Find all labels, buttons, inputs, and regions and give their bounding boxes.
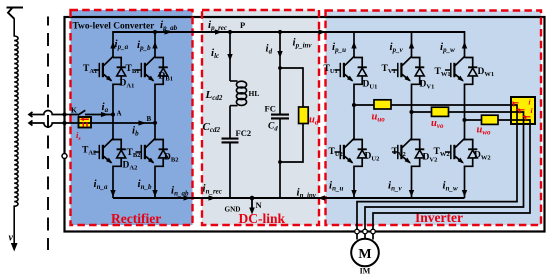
Inverter dashed border	[326, 11, 542, 226]
junction dot wire a on box edge	[62, 112, 66, 116]
voltage sensor u_d box	[299, 107, 309, 124]
IGBT module T_U2 with diode D_U2	[344, 139, 354, 148]
IGBT module T_W2 with diode D_W2	[455, 139, 465, 148]
wire phase U to motor	[354, 105, 517, 240]
arrow i_lc	[227, 54, 232, 61]
svg-text:B: B	[147, 115, 152, 123]
voltage sensor u_uo box	[374, 100, 391, 109]
junction dot u_d tap upper	[278, 66, 282, 70]
IGBT module T_U1 with diode D_U1	[344, 57, 354, 66]
IGBT module T_B2 with diode D_B2	[145, 139, 155, 148]
wire Cd branch lower	[279, 118, 281, 198]
junction dot P rail Cd branch	[278, 30, 282, 34]
svg-text:N: N	[256, 200, 263, 210]
arrow i_n_v	[409, 190, 414, 197]
arrow i_n_rec	[209, 195, 217, 200]
wire leg mid section T_A1 with diode D_A1	[112, 84, 114, 141]
outer system boundary box	[65, 17, 545, 232]
terminal circle on box edge	[62, 154, 67, 159]
arrow i_n_w	[462, 190, 467, 197]
arrow i_p_a	[110, 42, 115, 49]
arrow i_p_ab	[165, 29, 173, 34]
node B dot	[153, 121, 157, 125]
svg-text:FC2: FC2	[236, 128, 252, 138]
motor M circle	[351, 239, 379, 267]
node A dot	[111, 112, 115, 116]
DC-link dashed border	[202, 10, 319, 225]
capacitor Cd plates	[271, 114, 289, 116]
wire leg T_V2 with diode D_V2 lower stub	[411, 166, 413, 199]
motor terminal circle v	[363, 229, 368, 234]
wire leg mid section T_B1 with diode D_B1	[154, 84, 156, 141]
arrow v direction	[11, 243, 18, 252]
arrow i_a	[101, 112, 109, 117]
catenary wire	[7, 7, 24, 9]
wire leg T_V1 with diode D_V1 upper stub	[411, 31, 413, 58]
voltage sensor u_wo box	[482, 115, 499, 124]
arrow i_b	[139, 120, 147, 125]
dc-link section background	[202, 10, 319, 225]
junction dot u_d tap lower	[278, 160, 282, 164]
pantograph symbol	[8, 8, 14, 19]
IGBT module T_V1 with diode D_V1	[402, 57, 412, 66]
junction dot wire b on box edge	[62, 121, 66, 125]
arrow i_p_u	[351, 42, 356, 49]
wire Lcd branch middle	[229, 106, 231, 138]
svg-text:M: M	[358, 247, 371, 262]
arrow i_p_b	[152, 42, 157, 49]
arrow i_p_inv	[319, 29, 327, 34]
wire Lcd branch lower	[229, 142, 231, 198]
svg-text:HL: HL	[249, 89, 260, 98]
svg-text:K: K	[71, 106, 77, 115]
wire leg T_B2 with diode D_B2 lower stub	[154, 166, 156, 199]
negative rail N	[113, 197, 465, 199]
wire leg mid section T_V1 with diode D_V1	[411, 84, 413, 141]
motor terminal circle u	[355, 229, 360, 234]
junction dot phase V	[409, 110, 413, 114]
switch K blade	[78, 110, 86, 115]
svg-text:GND: GND	[225, 206, 241, 214]
wire leg T_W1 with diode D_W1 upper stub	[464, 31, 466, 58]
wire Lcd branch upper	[229, 32, 231, 81]
IGBT module T_V2 with diode D_V2	[402, 139, 412, 148]
IGBT module T_W1 with diode D_W1	[455, 57, 465, 66]
wire leg T_B1 with diode D_B1 upper stub	[154, 31, 156, 58]
wire a from transformer (with hop)	[29, 111, 78, 117]
Two-level Converter / Rectifier dashed border	[71, 10, 193, 225]
boundary dashed line	[47, 17, 49, 251]
inverter section background	[326, 11, 542, 226]
current sensor red glyphs	[514, 103, 520, 110]
positive rail P	[113, 31, 465, 33]
arrow i_p_v	[409, 42, 414, 49]
motor terminal circle w	[371, 229, 376, 234]
current sensor is box	[79, 117, 92, 128]
svg-text:DC-link: DC-link	[239, 211, 286, 226]
wire Cd branch upper	[279, 32, 281, 114]
arrow i_p_rec	[215, 29, 223, 34]
svg-text:A: A	[117, 110, 122, 118]
wire phase V to motor	[365, 112, 524, 240]
arrow i_n_ab	[184, 195, 192, 200]
svg-text:P: P	[240, 20, 245, 30]
wire phase W to motor	[373, 120, 530, 240]
junction dot phase W	[462, 118, 466, 122]
wire leg T_A1 with diode D_A1 upper stub	[112, 31, 114, 58]
svg-text:Two-level Converter: Two-level Converter	[73, 22, 155, 32]
rectifier section background	[71, 10, 193, 225]
arrow i_n_inv (leftward)	[318, 195, 326, 200]
svg-text:Rectifier: Rectifier	[111, 211, 161, 226]
IGBT module T_A2 with diode D_A2	[103, 139, 113, 148]
wire leg T_U2 with diode D_U2 lower stub	[353, 166, 355, 199]
junction dot N	[250, 196, 255, 201]
inductor L_cd2 coil	[230, 80, 238, 82]
svg-text:IM: IM	[360, 267, 371, 275]
IGBT module T_A1 with diode D_A1	[103, 57, 113, 66]
wire b from transformer (with hop)	[29, 121, 155, 127]
wire u_d tap upper	[280, 68, 303, 107]
arrow i_d	[277, 51, 282, 58]
wire leg T_W2 with diode D_W2 lower stub	[464, 166, 466, 199]
capacitor C_cd2 plates	[222, 138, 239, 140]
wire a to node A	[85, 114, 113, 116]
current sensor is red glyph	[82, 119, 89, 127]
wire u_d tap lower	[280, 124, 303, 163]
arrow i_n_a	[110, 190, 115, 197]
svg-text:v: v	[9, 233, 14, 244]
wire leg mid section T_W1 with diode D_W1	[464, 84, 466, 141]
arrow i_n_u	[351, 190, 356, 197]
arrow i_n_b	[152, 190, 157, 197]
ground arrow at N	[251, 198, 253, 210]
wire leg T_U1 with diode D_U1 upper stub	[353, 31, 355, 58]
wire leg mid section T_U1 with diode D_U1	[353, 84, 355, 141]
junction dot P rail Lcd branch	[228, 30, 232, 34]
svg-text:FC: FC	[265, 104, 276, 114]
transformer winding coil	[14, 19, 18, 245]
wire leg T_A2 with diode D_A2 lower stub	[112, 166, 114, 199]
voltage sensor u_vo box	[432, 107, 449, 116]
junction dot phase U	[352, 103, 356, 107]
junction dot rail top at leg B	[153, 30, 157, 34]
arrow i_p_w	[462, 42, 467, 49]
current sensor box i_u i_v i_w	[511, 97, 535, 124]
IGBT module T_B1 with diode D_B1	[145, 57, 155, 66]
